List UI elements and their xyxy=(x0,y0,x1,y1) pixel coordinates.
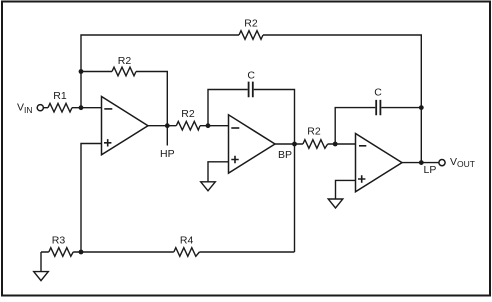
svg-text:C: C xyxy=(374,86,382,98)
wire U3 noninverting input to ground xyxy=(336,180,356,199)
resistor R2 (HP to U2) xyxy=(176,121,200,130)
ground (R3) xyxy=(34,272,49,281)
wire capacitor C2 feedback run xyxy=(335,108,421,144)
wire top feedback run xyxy=(81,35,421,163)
resistor R2 (BP to U3) xyxy=(303,140,328,149)
svg-text:R2: R2 xyxy=(181,108,195,120)
junction (R2 feedback tap) xyxy=(79,69,84,74)
op-amp U2 xyxy=(229,115,276,173)
junction (U2 inverting node) xyxy=(206,123,211,128)
wire U2 output BP node to R2 xyxy=(275,143,356,145)
wire U1 noninverting input to bottom node xyxy=(81,144,102,253)
svg-text:C: C xyxy=(247,70,255,82)
svg-text:HP: HP xyxy=(160,148,175,160)
svg-text:R3: R3 xyxy=(52,235,66,247)
svg-text:LP: LP xyxy=(424,164,437,176)
wire U2 noninverting input to ground xyxy=(208,162,229,182)
node HP stub xyxy=(166,126,168,146)
wire BP node down to bottom run xyxy=(294,144,296,252)
wire VIN to R1 xyxy=(43,107,48,109)
resistor R3 xyxy=(49,248,73,257)
resistor R2 (U1 feedback) xyxy=(112,67,136,76)
svg-text:R2: R2 xyxy=(118,55,132,67)
ground (U2) xyxy=(201,182,216,191)
junction (input node) xyxy=(79,105,84,110)
junction (C2 to top feedback) xyxy=(419,105,424,110)
svg-text:R4: R4 xyxy=(180,235,194,247)
capacitor C1 xyxy=(249,82,253,98)
capacitor C2 xyxy=(376,100,380,115)
wire capacitor C1 feedback run xyxy=(208,90,295,145)
svg-text:BP: BP xyxy=(278,149,292,161)
junction (bottom node) xyxy=(79,250,84,255)
resistor R1 xyxy=(48,103,72,112)
junction (U3 inverting node) xyxy=(333,142,338,147)
svg-text:R2: R2 xyxy=(244,18,258,30)
resistor R2 (top feedback) xyxy=(239,31,263,40)
ground (U3) xyxy=(328,199,343,208)
svg-text:R1: R1 xyxy=(53,90,67,102)
input terminal VIN xyxy=(37,105,43,111)
op-amp U3 xyxy=(356,134,403,192)
output terminal VOUT xyxy=(439,160,445,166)
wire U1 output to HP node to R2 xyxy=(148,125,229,127)
wire R1 to U1 inverting input xyxy=(72,107,102,109)
wire R3 to ground xyxy=(40,252,42,272)
wire U3 output to VOUT xyxy=(402,162,439,164)
junction node LP xyxy=(419,160,424,165)
wire R2 first feedback run xyxy=(81,72,167,126)
svg-text:R2: R2 xyxy=(307,125,321,137)
wire bottom run xyxy=(41,251,295,253)
resistor R4 xyxy=(174,248,200,257)
junction node BP xyxy=(292,142,297,147)
op-amp U1 xyxy=(102,97,149,155)
junction node HP xyxy=(165,123,170,128)
